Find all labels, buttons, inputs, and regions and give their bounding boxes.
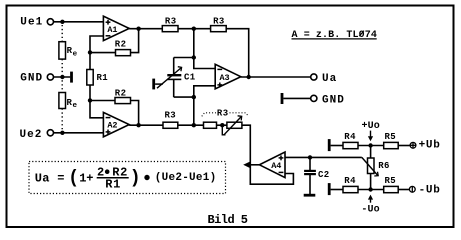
wire A1 - input xyxy=(90,36,103,52)
svg-text:A4: A4 xyxy=(271,161,281,171)
node GND input terminal xyxy=(20,73,53,85)
junction A1 output xyxy=(136,27,140,31)
junction Ue1 node xyxy=(60,20,64,24)
wire A2 output row xyxy=(129,124,163,126)
junction A1 feedback node xyxy=(88,50,92,54)
junction A2 output xyxy=(136,123,140,127)
resistor R3 (A3 feedback) xyxy=(211,17,227,32)
wire C1 bracket bottom xyxy=(174,96,194,98)
svg-text:R1: R1 xyxy=(97,73,109,83)
wire bar to R4 lower xyxy=(331,189,343,191)
op-amp A4 xyxy=(259,152,285,178)
node -Ub terminal xyxy=(409,184,440,196)
wire C1 bracket top xyxy=(174,57,194,59)
wire A2 - input xyxy=(90,100,103,117)
op-amp A3 xyxy=(215,64,241,89)
junction A3 + net bottom xyxy=(192,123,196,127)
svg-text:GND: GND xyxy=(20,73,43,85)
wire R6 bottom lead xyxy=(370,174,372,190)
junction C2 node xyxy=(308,155,312,159)
resistor R5 (lower) xyxy=(384,176,399,193)
svg-text:R3: R3 xyxy=(165,17,177,27)
svg-text:R4: R4 xyxy=(344,176,356,186)
node Ue2 terminal xyxy=(20,129,54,141)
svg-text:+Uo: +Uo xyxy=(362,121,380,132)
label +Uo with arrow xyxy=(362,121,380,141)
svg-text:R5: R5 xyxy=(385,176,397,186)
resistor R3 (A1 output) xyxy=(162,17,178,32)
node +Ub terminal xyxy=(410,139,440,151)
wire R4 to +Uo node xyxy=(358,145,384,147)
wire A3 - input xyxy=(194,58,215,69)
wire A3 + net vertical xyxy=(193,97,195,125)
wire R4 to -Uo node xyxy=(358,189,384,191)
node Ua terminal xyxy=(311,73,338,85)
svg-text:+Ub: +Ub xyxy=(419,139,441,151)
wire A2 feedback xyxy=(90,100,115,102)
wire R3 to junction xyxy=(178,124,204,126)
svg-text:(: ( xyxy=(68,169,79,189)
svg-text:R2: R2 xyxy=(115,88,127,98)
wire GND to bar xyxy=(54,76,71,78)
ground bar at GND input xyxy=(70,72,73,83)
junction R3 wiper node xyxy=(220,123,224,127)
svg-text:A1: A1 xyxy=(107,25,117,35)
junction Ue2 node xyxy=(60,131,64,135)
wire A1 output row xyxy=(129,28,162,30)
junction A2 feedback node xyxy=(88,98,92,102)
svg-text:(Ue2-Ue1): (Ue2-Ue1) xyxy=(155,172,217,184)
wire C1 trimmer arrow xyxy=(157,67,182,89)
wire R1 bottom xyxy=(89,85,91,100)
wire R6 top lead xyxy=(370,146,372,159)
wire R5 to -Ub xyxy=(398,189,409,191)
svg-text:R3: R3 xyxy=(165,111,177,121)
capacitor C2 xyxy=(304,157,330,194)
wire bar to R4 upper xyxy=(331,145,343,147)
svg-text:C1: C1 xyxy=(184,73,196,83)
svg-text:e: e xyxy=(73,50,78,58)
resistor R5 (upper) xyxy=(384,132,399,149)
wire R1 top xyxy=(89,52,91,69)
wire A4 + input xyxy=(285,156,362,158)
formula box xyxy=(29,162,226,194)
svg-text:A3: A3 xyxy=(220,73,230,83)
wire C1 upper lead xyxy=(173,58,175,76)
resistor R4 (lower) xyxy=(343,176,358,193)
wire A3 + input xyxy=(194,86,215,97)
wire R3 to R3 xyxy=(178,28,211,30)
wire dotted Re chain xyxy=(61,25,63,130)
svg-text:R3: R3 xyxy=(217,109,229,119)
svg-text:-Uo: -Uo xyxy=(361,204,379,215)
wire C1 lower lead xyxy=(173,79,175,97)
resistor R3 (A2 output) xyxy=(163,111,178,129)
ground bar at GND output xyxy=(281,93,284,104)
svg-text:R5: R5 xyxy=(385,132,397,142)
svg-text:Ue1: Ue1 xyxy=(20,16,43,28)
svg-text:A2: A2 xyxy=(107,121,117,131)
svg-text:e: e xyxy=(73,102,78,110)
resistor Re (upper) xyxy=(59,42,78,59)
resistor Re (lower) xyxy=(59,93,78,111)
label -Uo with arrow xyxy=(361,195,379,216)
wire A3 output to Ua xyxy=(241,76,311,78)
svg-text:R1: R1 xyxy=(105,178,121,192)
svg-text:R4: R4 xyxy=(344,132,356,142)
ground bar at C2 xyxy=(304,194,316,197)
resistor R3 trimmer xyxy=(222,116,242,135)
resistor R4 (upper) xyxy=(343,132,358,149)
ground bar at C1 xyxy=(152,79,155,90)
label R3 dotted leader xyxy=(202,109,249,119)
node Ue1 terminal xyxy=(20,16,53,28)
wire A1 feedback xyxy=(90,52,116,54)
wire A4 output with arrow xyxy=(243,161,259,168)
node GND output terminal xyxy=(311,95,345,107)
svg-text:-Ub: -Ub xyxy=(419,184,441,196)
svg-text:R2: R2 xyxy=(115,40,127,50)
wire A3 - net vertical xyxy=(193,29,195,58)
wire R5 to +Ub xyxy=(398,145,410,147)
wire trimmer to A4 riser xyxy=(242,125,294,184)
wire Ue1 to A1 + input xyxy=(54,21,104,23)
junction +Uo node xyxy=(368,143,372,147)
svg-text:=: = xyxy=(57,171,64,185)
svg-text:1+: 1+ xyxy=(79,171,93,185)
svg-text:C2: C2 xyxy=(318,170,330,180)
svg-text:Ua: Ua xyxy=(322,73,337,85)
ground bar at R4 lower xyxy=(328,183,331,195)
wire C1 bar lead xyxy=(155,83,163,85)
svg-text:R6: R6 xyxy=(378,161,390,171)
junction C1 bottom xyxy=(192,95,196,99)
svg-text:GND: GND xyxy=(322,95,345,107)
wire Ue2 to A2 + input xyxy=(54,132,104,134)
wire R3 feedback to A3 output xyxy=(226,29,249,77)
resistor R3 (trim fixed part) xyxy=(204,122,217,128)
resistor R1 xyxy=(87,70,109,86)
resistor R2 (A1 feedback) xyxy=(115,40,131,56)
note A = z.B. TL074 xyxy=(292,30,377,41)
capacitor C1 xyxy=(167,73,196,83)
resistor R6 trimmer xyxy=(362,157,390,176)
junction GND node xyxy=(60,75,64,79)
wire junction to trimmer xyxy=(217,124,227,126)
svg-text:Ua: Ua xyxy=(35,171,50,185)
svg-text:Bild 5: Bild 5 xyxy=(208,213,248,227)
op-amp A2 xyxy=(103,112,129,136)
wire GND output xyxy=(283,97,310,99)
junction A3 output xyxy=(247,75,251,79)
svg-text:Ue2: Ue2 xyxy=(20,129,43,141)
ground bar at R4 upper xyxy=(328,139,331,151)
op-amp A1 xyxy=(103,16,129,40)
junction A3 - net top xyxy=(192,27,196,31)
junction C1 top xyxy=(192,55,196,59)
resistor R2 (A2 feedback) xyxy=(115,88,131,103)
wire R2 to A1 output xyxy=(131,29,139,53)
junction -Uo node xyxy=(368,187,372,191)
svg-text:R3: R3 xyxy=(213,17,225,27)
wire R2 to A2 output xyxy=(131,101,139,126)
svg-text:): ) xyxy=(130,169,141,189)
